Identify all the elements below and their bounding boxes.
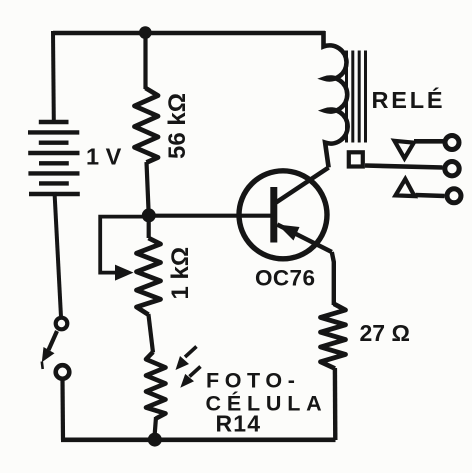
svg-text:R14: R14 <box>216 411 262 437</box>
relay contact bottom line <box>416 195 445 196</box>
wire R2 to bottom rail <box>333 368 338 440</box>
resistor R1 56k zigzag <box>135 88 159 163</box>
light arrow 1 <box>176 347 197 371</box>
svg-text:1 kΩ: 1 kΩ <box>167 247 194 300</box>
relay contact top triangle <box>394 141 413 159</box>
svg-text:1 V: 1 V <box>86 144 122 170</box>
svg-text:RELÉ: RELÉ <box>372 86 446 113</box>
transistor Q1 emitter arrow (PNP) <box>278 225 300 241</box>
wire photocell to bottom node <box>155 417 157 437</box>
svg-text:27 Ω: 27 Ω <box>360 320 410 346</box>
photocell R14 zigzag <box>146 352 166 419</box>
wire top node to R1 <box>143 33 147 89</box>
wire left rail (top to battery) <box>51 31 56 121</box>
light arrow 2 <box>180 367 200 388</box>
wire bottom rail <box>61 437 336 442</box>
wire base <box>149 214 271 218</box>
relay terminal bottom circle <box>447 189 461 203</box>
relay contact bottom triangle <box>396 179 415 196</box>
svg-text:FOTO-: FOTO- <box>206 368 300 392</box>
transistor Q1 collector lead (to coil) <box>276 168 329 203</box>
switch S1 <box>42 318 70 379</box>
resistor R2 27 zigzag <box>321 304 346 369</box>
relay core lines <box>347 51 366 143</box>
relay contact common line <box>365 166 443 168</box>
relay coil L1 <box>324 31 348 168</box>
transistor Q1 circle <box>239 171 327 259</box>
wire top rail <box>53 31 325 35</box>
wire emitter to R2 <box>332 252 334 305</box>
node bottom junction <box>148 433 162 447</box>
node top junction <box>139 26 152 39</box>
transistor Q1 emitter lead <box>277 225 332 253</box>
relay terminal middle circle <box>445 162 459 176</box>
node base junction <box>142 208 156 222</box>
potentiometer P1 1k zigzag <box>137 212 161 315</box>
battery B1 <box>28 122 80 194</box>
wire R1 to base node <box>147 162 149 212</box>
potentiometer P1 wiper arm <box>100 217 147 281</box>
relay terminal top circle <box>445 136 459 150</box>
transistor Q1 base bar <box>270 187 277 243</box>
wire switch to bottom rail <box>60 380 65 440</box>
svg-text:OC76: OC76 <box>255 265 315 290</box>
wire battery to switch <box>55 192 62 317</box>
relay contact top line <box>414 139 443 144</box>
wire pot to photocell <box>148 314 153 353</box>
relay armature square <box>349 152 363 166</box>
svg-text:56 kΩ: 56 kΩ <box>164 93 191 159</box>
